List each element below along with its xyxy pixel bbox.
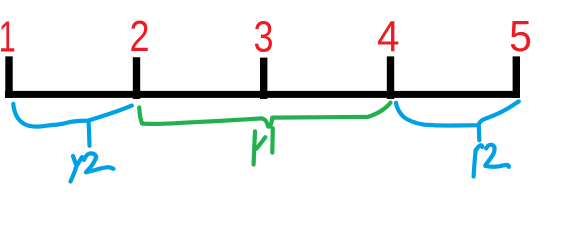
node 1 tick xyxy=(5,56,12,98)
svg-text:1: 1 xyxy=(0,13,16,62)
svg-text:5: 5 xyxy=(509,13,532,62)
svg-text:2: 2 xyxy=(129,12,149,61)
right blue brace (interval 4-5) xyxy=(396,101,519,140)
svg-text:4: 4 xyxy=(377,12,400,61)
right blue label r2 xyxy=(474,145,509,177)
wire: number line horizontal axis xyxy=(5,91,520,98)
left blue brace (interval 1-2) xyxy=(13,104,132,146)
node 2 tick xyxy=(133,57,140,99)
node 4 tick xyxy=(387,56,394,99)
green brace (interval 2-4) xyxy=(139,103,390,127)
left blue label r2 xyxy=(71,153,114,181)
node 5 tick xyxy=(513,56,520,98)
node 3 tick xyxy=(260,58,267,99)
green label r1 xyxy=(254,128,273,164)
svg-text:3: 3 xyxy=(253,12,273,61)
